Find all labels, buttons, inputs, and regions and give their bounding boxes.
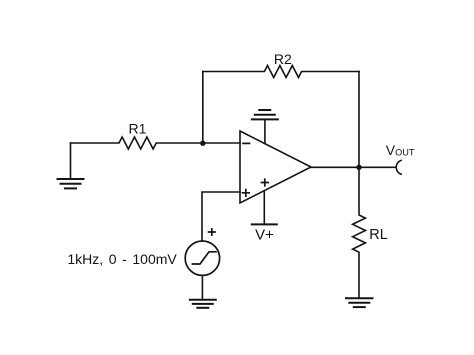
svg-text:R1: R1 xyxy=(129,121,147,137)
wire (non-inverting input) xyxy=(202,192,240,241)
output terminal (open connector arc) xyxy=(396,160,401,174)
wire (feedback right riser to output node) xyxy=(358,72,360,168)
wire (V- pin stem) xyxy=(264,119,266,143)
svg-text:VOUT: VOUT xyxy=(386,142,415,158)
resistor RL (load) xyxy=(353,167,388,298)
svg-text:R2: R2 xyxy=(274,51,292,67)
svg-text:RL: RL xyxy=(369,227,388,243)
wire (feedback left riser) xyxy=(202,72,204,144)
svg-text:V+: V+ xyxy=(255,227,274,244)
wire (V+ pin stem) xyxy=(263,191,265,225)
op-amp U1 xyxy=(240,131,311,203)
ground (below RL) xyxy=(346,298,373,307)
resistor R1 xyxy=(71,121,241,150)
resistor R2 (feedback) xyxy=(203,51,359,78)
output node junction dot xyxy=(356,165,361,170)
polarity + of source V1 xyxy=(209,229,215,235)
wire (source to ground) xyxy=(201,275,203,299)
node A junction dot (inverting input node) xyxy=(200,141,205,146)
source V1 (signal generator) xyxy=(185,241,219,275)
svg-text:1kHz, 0 - 100mV: 1kHz, 0 - 100mV xyxy=(67,251,177,267)
ground (below source V1) xyxy=(190,300,216,308)
ground (inverted, op-amp V- pin) xyxy=(252,110,278,119)
wire (op-amp output) xyxy=(311,166,396,168)
V+ supply terminal bar xyxy=(252,224,277,243)
ground (left, input) xyxy=(58,143,84,188)
